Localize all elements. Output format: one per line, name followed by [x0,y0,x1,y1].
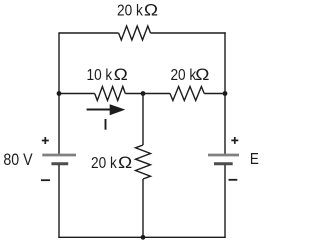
wire top (right segment) [151,32,226,34]
wire bottom [58,236,225,238]
label 10 kOhm [87,65,128,84]
label - (battery 80 V) [41,179,50,181]
svg-text:20 k: 20 k [91,155,117,172]
battery E short plate (-) [214,162,233,165]
wire middle branch vertical (node B down to resistor) [142,94,144,146]
current arrow I [87,104,126,115]
label 80 V [3,151,33,169]
wire vertical branch (below resistor to bottom) [142,179,144,237]
battery 80 V short plate (-) [51,162,68,165]
wire middle (center segment) [125,93,170,95]
label 20 kOhm (vertical resistor) [91,153,132,172]
label + (battery 80 V) [42,137,49,144]
label I [105,119,107,130]
label 20 kOhm (top resistor) [117,1,158,20]
wire left rail (bottom part, below battery) [58,165,60,238]
resistor 20 kOhm (middle right) [170,87,204,101]
resistor 20 kOhm (vertical middle) [136,145,151,179]
label - (battery E) [229,179,238,181]
svg-text:80 V: 80 V [3,151,33,169]
wire middle (left segment from node A) [59,93,95,95]
svg-text:E: E [250,151,259,168]
battery 80 V long plate (+) [42,154,76,157]
svg-text:Ω: Ω [195,65,209,84]
battery E long plate (+) [208,154,239,157]
svg-text:10 k: 10 k [87,67,113,84]
junction node (bottom wire / vertical branch) [141,235,146,240]
junction node (left rail / middle wire) [57,91,62,96]
svg-text:20 k: 20 k [170,67,196,84]
resistor 10 kOhm (middle left) [95,87,126,101]
svg-text:Ω: Ω [144,1,158,20]
svg-text:20 k: 20 k [117,3,143,20]
wire middle (right segment to right rail) [204,93,225,95]
resistor 20 kOhm (top) [119,26,151,40]
label 20 kOhm (middle right resistor) [170,65,209,84]
svg-text:Ω: Ω [118,153,132,172]
label + (battery E) [231,137,238,144]
svg-text:Ω: Ω [114,65,128,84]
junction node (middle wire / vertical branch) [141,91,146,96]
wire top (left segment) [59,32,119,34]
wire right rail (top part, down to battery E) [224,32,226,155]
wire left rail (top part, down to battery 80 V) [58,32,60,155]
label E [250,151,259,168]
wire right rail (bottom part, below battery) [224,165,226,238]
junction node (right rail / middle wire) [223,91,228,96]
